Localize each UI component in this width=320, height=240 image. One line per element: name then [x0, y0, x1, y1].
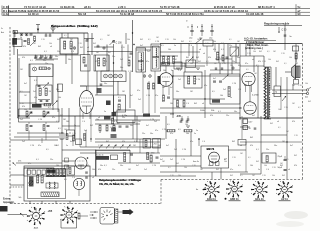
svg-text:0,1: 0,1: [148, 39, 151, 41]
sheet border dashed left: [9, 27, 11, 204]
svg-text:0,5: 0,5: [118, 97, 121, 99]
svg-text:0,1: 0,1: [298, 107, 301, 109]
svg-text:50: 50: [249, 128, 252, 130]
svg-text:0,1: 0,1: [286, 159, 289, 161]
oscillator trimmer arrow: [195, 39, 202, 45]
wire y86 extend: [80, 85, 95, 87]
tuner unit circle 3: [114, 74, 118, 78]
svg-text:4x7: 4x7: [130, 95, 133, 97]
wire x69 af: [68, 108, 70, 130]
svg-text:A 4x: A 4x: [3, 12, 9, 16]
small parts near cans: [128, 60, 130, 66]
svg-text:8k2: 8k2: [259, 51, 262, 53]
wire x75 af: [74, 116, 76, 139]
trimmer C4: [48, 67, 51, 70]
box 5k lower right: [262, 153, 276, 163]
wire y59 right: [215, 58, 232, 60]
T3 secondary loops: [269, 69, 270, 81]
svg-text:1M: 1M: [156, 37, 159, 39]
dark hatch bar AF: [96, 156, 109, 160]
tone box above power unit: [24, 168, 54, 176]
wire left bus y55: [18, 54, 80, 56]
parts list table mid rule: [3, 11, 311, 13]
svg-text:47n: 47n: [28, 163, 31, 165]
svg-text:x4: x4: [99, 132, 101, 134]
cap row near ground: [45, 34, 48, 36]
wire y156 right half: [160, 155, 201, 157]
svg-text:0,1: 0,1: [248, 157, 251, 159]
svg-text:x4: x4: [92, 177, 94, 179]
capacitor C blob: [106, 101, 111, 106]
svg-text:8k2: 8k2: [181, 41, 184, 43]
svg-text:4x7: 4x7: [70, 141, 73, 143]
wire can feeds y47: [136, 46, 160, 48]
dark marks in det box: [212, 100, 220, 103]
svg-text:1M: 1M: [128, 169, 131, 171]
wire top rail left section: [14, 32, 88, 34]
svg-text:5n: 5n: [171, 70, 173, 72]
svg-text:1M: 1M: [240, 153, 243, 155]
svg-text:1M: 1M: [292, 85, 295, 87]
rectifier tube V7: [73, 178, 84, 189]
svg-text:2x2: 2x2: [154, 121, 157, 123]
wire x250 y44-56: [249, 44, 251, 57]
cap right low: [254, 127, 257, 129]
svg-text:10k: 10k: [56, 165, 59, 167]
svg-text:10k: 10k: [272, 175, 275, 177]
wire bus y137: [14, 136, 59, 138]
wire bus y142 middle: [95, 141, 160, 143]
wire vertical x88: [87, 33, 89, 90]
svg-text:5n: 5n: [20, 37, 22, 39]
antenna input symbol: [37, 25, 39, 32]
wire AVC bus y133: [17, 132, 60, 134]
speaker LS1: [292, 65, 296, 80]
svg-text:0,5: 0,5: [46, 149, 49, 151]
mains transformer T4 primary bars: [47, 169, 49, 176]
wire bus y108: [160, 107, 242, 109]
LYD output arrow: [118, 211, 123, 213]
arrow into det box: [223, 75, 229, 81]
svg-text:4x7: 4x7: [166, 145, 169, 147]
svg-text:R 1 Rawmll,Tjd5dk 4x4Fd5d 4t 3: R 1 Rawmll,Tjd5dk 4x4Fd5d 4t 38 05 98 41…: [3, 9, 60, 13]
svg-text:2x2: 2x2: [138, 99, 141, 101]
svg-text:25n: 25n: [122, 117, 125, 119]
AF tube V4: [75, 157, 87, 169]
resistor in upper box b: [70, 41, 72, 49]
wire to socket1: [8, 214, 28, 216]
box 5 right of T3: [274, 86, 281, 97]
capacitor row y54-60: [35, 55, 37, 58]
svg-text:47k: 47k: [95, 61, 98, 63]
svg-text:0,1: 0,1: [104, 61, 107, 63]
svg-text:(1w: (1w: [209, 38, 213, 40]
wire bus y76: [172, 75, 240, 77]
resistor osc right: [222, 55, 224, 61]
wire bus y113: [160, 112, 240, 114]
resistor under coupling: [147, 153, 149, 160]
svg-text:C 4: C 4: [71, 51, 74, 53]
svg-text:47k: 47k: [250, 145, 253, 147]
svg-text:C 20: C 20: [182, 149, 186, 151]
wire bus y66: [160, 65, 205, 67]
svg-text:1M: 1M: [282, 141, 285, 143]
discriminator box: [184, 72, 202, 88]
dark hatch in tone box: [47, 170, 56, 173]
bottom left terminal blob: [0, 206, 8, 212]
svg-text:50n: 50n: [234, 111, 237, 113]
wire vertical x240: [239, 44, 241, 120]
stack cluster x113: [112, 112, 117, 116]
svg-text:0,5: 0,5: [212, 91, 215, 93]
capacitor mid y126: [119, 125, 122, 127]
svg-text:2x2: 2x2: [178, 79, 181, 81]
wire vertical x92: [91, 33, 93, 55]
svg-text:10k: 10k: [92, 169, 95, 171]
svg-text:50n: 50n: [56, 89, 59, 91]
svg-text:Extern: Extern: [3, 198, 11, 201]
wire y163 to AF box: [16, 162, 62, 164]
svg-text:2x2: 2x2: [84, 130, 87, 132]
svg-text:2x2: 2x2: [144, 169, 147, 171]
svg-text:8k2: 8k2: [80, 47, 83, 49]
svg-text:C 20: C 20: [165, 39, 169, 41]
svg-text:C 20: C 20: [294, 135, 298, 137]
svg-text:1M: 1M: [254, 73, 257, 75]
svg-text:47k: 47k: [210, 115, 213, 117]
wire vertical x189 mid: [188, 44, 190, 57]
resistor pair below trimmers: [148, 83, 150, 89]
svg-text:5n: 5n: [64, 44, 66, 46]
svg-text:25n: 25n: [50, 159, 53, 161]
wire x97 mid: [96, 71, 98, 95]
wire left vertical rail: [13, 30, 15, 55]
components under V2: [163, 95, 165, 101]
svg-text:47k: 47k: [292, 121, 295, 123]
IF transformer T1 can: [136, 48, 146, 72]
svg-text:10k: 10k: [66, 121, 69, 123]
wire vertical x118: [117, 81, 119, 95]
svg-text:50n: 50n: [274, 145, 277, 147]
svg-text:10k: 10k: [264, 165, 267, 167]
dark resistor 22k: [143, 114, 150, 117]
svg-text:0,1: 0,1: [256, 149, 259, 151]
svg-text:47k: 47k: [22, 106, 25, 108]
svg-text:2x2: 2x2: [33, 91, 36, 93]
grid cap lead V1: [80, 85, 87, 87]
wire bus y172 right of eye: [160, 171, 248, 173]
svg-text:0,1: 0,1: [240, 175, 243, 177]
svg-text:0,1: 0,1: [100, 39, 103, 41]
IF tube V2 with grid blob: [159, 73, 173, 87]
svg-text:8k2: 8k2: [295, 63, 298, 65]
mains cap pair: [85, 171, 88, 173]
crystal box with diagonal: [230, 47, 239, 56]
sheet border dashed step vertical: [160, 180, 162, 204]
converter tube V1 ECH11: [79, 91, 93, 114]
wire osc bus y56: [160, 55, 178, 57]
wire vertical x66: [65, 54, 67, 64]
Reg parts box: [293, 46, 299, 51]
svg-text:C 20: C 20: [298, 85, 302, 87]
wire input mesh: [21, 33, 23, 36]
svg-text:C 20: C 20: [262, 61, 266, 63]
wire x95 AF down: [95, 150, 97, 176]
svg-text:0,5: 0,5: [30, 177, 33, 179]
svg-text:0,1: 0,1: [246, 69, 249, 71]
resistor R osc: [217, 52, 219, 60]
dark cluster x110 y133: [111, 134, 117, 138]
resistor in B2 b: [103, 58, 105, 66]
svg-text:25n: 25n: [112, 56, 115, 58]
wire x128 стuб: [127, 45, 129, 61]
svg-text:C 4: C 4: [189, 45, 192, 47]
svg-text:25n: 25n: [45, 63, 48, 65]
wafer hatched bar right: [115, 209, 118, 223]
svg-text:10k: 10k: [24, 109, 27, 111]
svg-text:0,1: 0,1: [267, 51, 270, 53]
wire rail y51 mid: [87, 51, 133, 53]
resistor 0.1M vertical: [124, 153, 126, 162]
power resistors: [37, 175, 39, 183]
svg-text:8k2: 8k2: [90, 125, 93, 127]
wire B+ rail right: [240, 117, 303, 119]
svg-text:0,1: 0,1: [284, 63, 287, 65]
svg-text:2x2: 2x2: [170, 159, 173, 161]
padder capacitor x202: [201, 24, 203, 30]
wire vertical x193: [192, 46, 194, 63]
svg-text:2x2: 2x2: [174, 149, 177, 151]
svg-text:8k2: 8k2: [250, 137, 253, 139]
tone vertical stubs: [28, 131, 30, 141]
cathode components right bottom: [243, 119, 248, 124]
faint smudge bottom right: [284, 211, 308, 219]
svg-text:4x7: 4x7: [136, 165, 139, 167]
svg-text:27k: 27k: [18, 161, 22, 163]
small box top right of power: [67, 166, 75, 175]
svg-text:4xx1: 4xx1: [34, 227, 39, 230]
svg-text:1M: 1M: [214, 63, 217, 65]
wire y127 right stub: [240, 126, 250, 128]
svg-text:41 39,30 4b: 41 39,30 4b: [60, 5, 75, 9]
resistor row mid y121: [99, 125, 101, 131]
svg-text:C 20: C 20: [162, 129, 166, 131]
IF transformer T2 can: [151, 44, 161, 71]
eye tube legs: [210, 162, 214, 166]
wire ground drop: [52, 31, 54, 34]
svg-text:5n: 5n: [66, 145, 68, 147]
svg-text:0,1: 0,1: [64, 35, 67, 37]
svg-text:47n: 47n: [52, 117, 55, 119]
V2 anode wire: [165, 66, 167, 73]
wire x246 down: [245, 142, 247, 172]
resistor in B2: [98, 58, 100, 66]
trimmer C2: [25, 33, 28, 36]
svg-text:x4: x4: [50, 46, 52, 48]
resistor dark low: [104, 116, 111, 119]
svg-text:8k2: 8k2: [232, 141, 235, 143]
box 13n: [117, 110, 135, 123]
tube V1 pins: [82, 113, 84, 119]
cap near reg: [284, 34, 287, 36]
svg-text:50n: 50n: [120, 67, 123, 69]
wire bus y139 middle: [95, 138, 165, 140]
svg-text:47k: 47k: [22, 57, 25, 59]
svg-text:10k: 10k: [185, 124, 188, 126]
svg-text:25n: 25n: [154, 144, 157, 146]
resistor x150 y156: [150, 155, 152, 162]
svg-text:5n: 5n: [230, 97, 232, 99]
ground marks mid: [176, 67, 180, 69]
svg-text:50n: 50n: [68, 59, 71, 61]
wire bus y153: [80, 152, 160, 154]
svg-text:C 4: C 4: [82, 121, 85, 123]
resistor R5 dark: [32, 104, 42, 108]
svg-text:x8 41: x8 41: [84, 5, 91, 9]
svg-text:47k: 47k: [106, 117, 109, 119]
wire top rail right section: [160, 43, 303, 45]
power dark cluster left: [29, 177, 34, 187]
svg-text:1M: 1M: [162, 161, 165, 163]
wire x191 mid low: [190, 132, 192, 156]
C100 capacitor with arrow: [112, 40, 115, 42]
svg-text:8k2: 8k2: [117, 123, 120, 125]
wire speaker line y90: [272, 89, 307, 91]
wire verticals left column: [57, 84, 59, 112]
svg-text:8k2: 8k2: [230, 175, 233, 177]
svg-text:8k2: 8k2: [196, 57, 199, 59]
svg-text:0,1: 0,1: [26, 35, 29, 37]
svg-text:C 4: C 4: [202, 141, 205, 143]
wire x246 upper: [245, 44, 247, 57]
wafer radial contacts: [103, 218, 105, 220]
svg-text:0,1: 0,1: [221, 49, 224, 51]
speaker top lead: [295, 55, 297, 65]
svg-text:47k: 47k: [258, 61, 261, 63]
wire y150 right: [228, 149, 246, 151]
svg-text:x4: x4: [240, 145, 242, 147]
svg-text:0,5: 0,5: [238, 165, 241, 167]
svg-text:10k: 10k: [289, 57, 292, 59]
cap 47n upper: [75, 138, 77, 140]
oscillator box left: [36, 85, 52, 104]
svg-text:x4: x4: [252, 59, 254, 61]
wire y124 mid: [95, 123, 140, 125]
wire y163 mid: [118, 162, 160, 164]
arrow input left: [13, 163, 17, 166]
svg-text:4x7: 4x7: [252, 115, 255, 117]
wire vertical x84 top: [83, 33, 85, 55]
wire vertical x130: [129, 72, 131, 108]
svg-text:0,1: 0,1: [278, 127, 281, 129]
svg-text:4Ω: 4Ω: [305, 97, 308, 99]
svg-text:C 4: C 4: [243, 129, 246, 131]
cap 25uF symbol: [284, 159, 287, 161]
svg-text:-245: -245: [176, 115, 181, 118]
output transformer T3 primary zigzag: [264, 67, 266, 119]
parts list table top rule: [3, 8, 311, 10]
wire y161 in AF: [62, 160, 75, 162]
heater winding marks: [49, 182, 50, 189]
wire left coil feed vertical: [17, 49, 19, 118]
ballast hatch bar: [41, 192, 59, 197]
svg-text:5n: 5n: [104, 111, 106, 113]
control range arrow with C50: [278, 27, 280, 33]
wire y140 vertical x42: [41, 138, 43, 143]
wire x254 upper: [253, 56, 255, 72]
svg-text:25n: 25n: [112, 169, 115, 171]
svg-text:x4: x4: [202, 103, 204, 105]
wire y70 det: [210, 69, 240, 71]
svg-text:47n: 47n: [190, 141, 193, 143]
wire vertical x107: [106, 45, 108, 72]
svg-text:AZ 11: AZ 11: [281, 198, 288, 201]
svg-text:C 20: C 20: [78, 43, 82, 45]
wire x258 outputs: [257, 66, 259, 118]
tuner unit circle 1: [104, 74, 108, 78]
variable inductor arrow: [43, 83, 49, 89]
svg-text:50n: 50n: [100, 165, 103, 167]
svg-text:10k: 10k: [220, 95, 223, 97]
svg-text:8k2: 8k2: [282, 175, 285, 177]
svg-text:C 4: C 4: [266, 169, 269, 171]
svg-text:0,1: 0,1: [166, 59, 169, 61]
svg-text:C 20: C 20: [41, 39, 45, 41]
bus y142 right: [240, 141, 302, 143]
svg-text:81 n5 84 24 441 dnl 18 xx 14 8: 81 n5 84 24 441 dnl 18 xx 14 88 98 14 n5…: [96, 9, 163, 13]
oscillator coil box: [203, 40, 213, 46]
svg-text:10k: 10k: [305, 83, 308, 85]
svg-text:10k: 10k: [127, 39, 130, 41]
svg-text:0,1: 0,1: [168, 167, 171, 169]
svg-text:C 20: C 20: [205, 43, 209, 45]
svg-text:0,1: 0,1: [208, 165, 211, 167]
box upper mid section: [60, 38, 78, 54]
input components row y55-60: [35, 55, 38, 57]
svg-text:0,1: 0,1: [36, 159, 39, 161]
wire vertical x95: [95, 55, 97, 71]
svg-text:5n: 5n: [64, 171, 66, 173]
wire y66 output top: [240, 65, 264, 67]
svg-text:0,1: 0,1: [104, 165, 107, 167]
cap 50uF symbol: [284, 169, 287, 171]
ground marks y116: [170, 113, 174, 115]
svg-text:4x7: 4x7: [290, 145, 293, 147]
svg-text:8k2: 8k2: [57, 39, 60, 41]
svg-text:5n: 5n: [74, 125, 76, 127]
wire vertical x126: [125, 33, 127, 44]
svg-text:10k: 10k: [163, 70, 166, 72]
svg-text:47n: 47n: [146, 61, 149, 63]
svg-text:5n: 5n: [178, 107, 180, 109]
svg-text:8k2: 8k2: [56, 145, 59, 147]
feedback arrow: [282, 96, 286, 101]
coupling boxes right: [143, 139, 151, 149]
svg-text:47n: 47n: [34, 97, 37, 99]
svg-text:47n: 47n: [38, 145, 41, 147]
magic eye box: [201, 146, 229, 168]
power box bottom stubs: [29, 201, 31, 204]
svg-text:0,5: 0,5: [256, 65, 259, 67]
switch contact x113: [113, 145, 117, 149]
wire speaker feed: [270, 67, 272, 90]
small box right of eye top: [238, 140, 246, 146]
svg-text:0,1: 0,1: [189, 41, 192, 43]
wire vertical x276: [275, 67, 277, 86]
svg-text:47n: 47n: [137, 90, 140, 92]
wire x133 down: [132, 120, 134, 139]
wire vertical x185: [184, 63, 186, 72]
